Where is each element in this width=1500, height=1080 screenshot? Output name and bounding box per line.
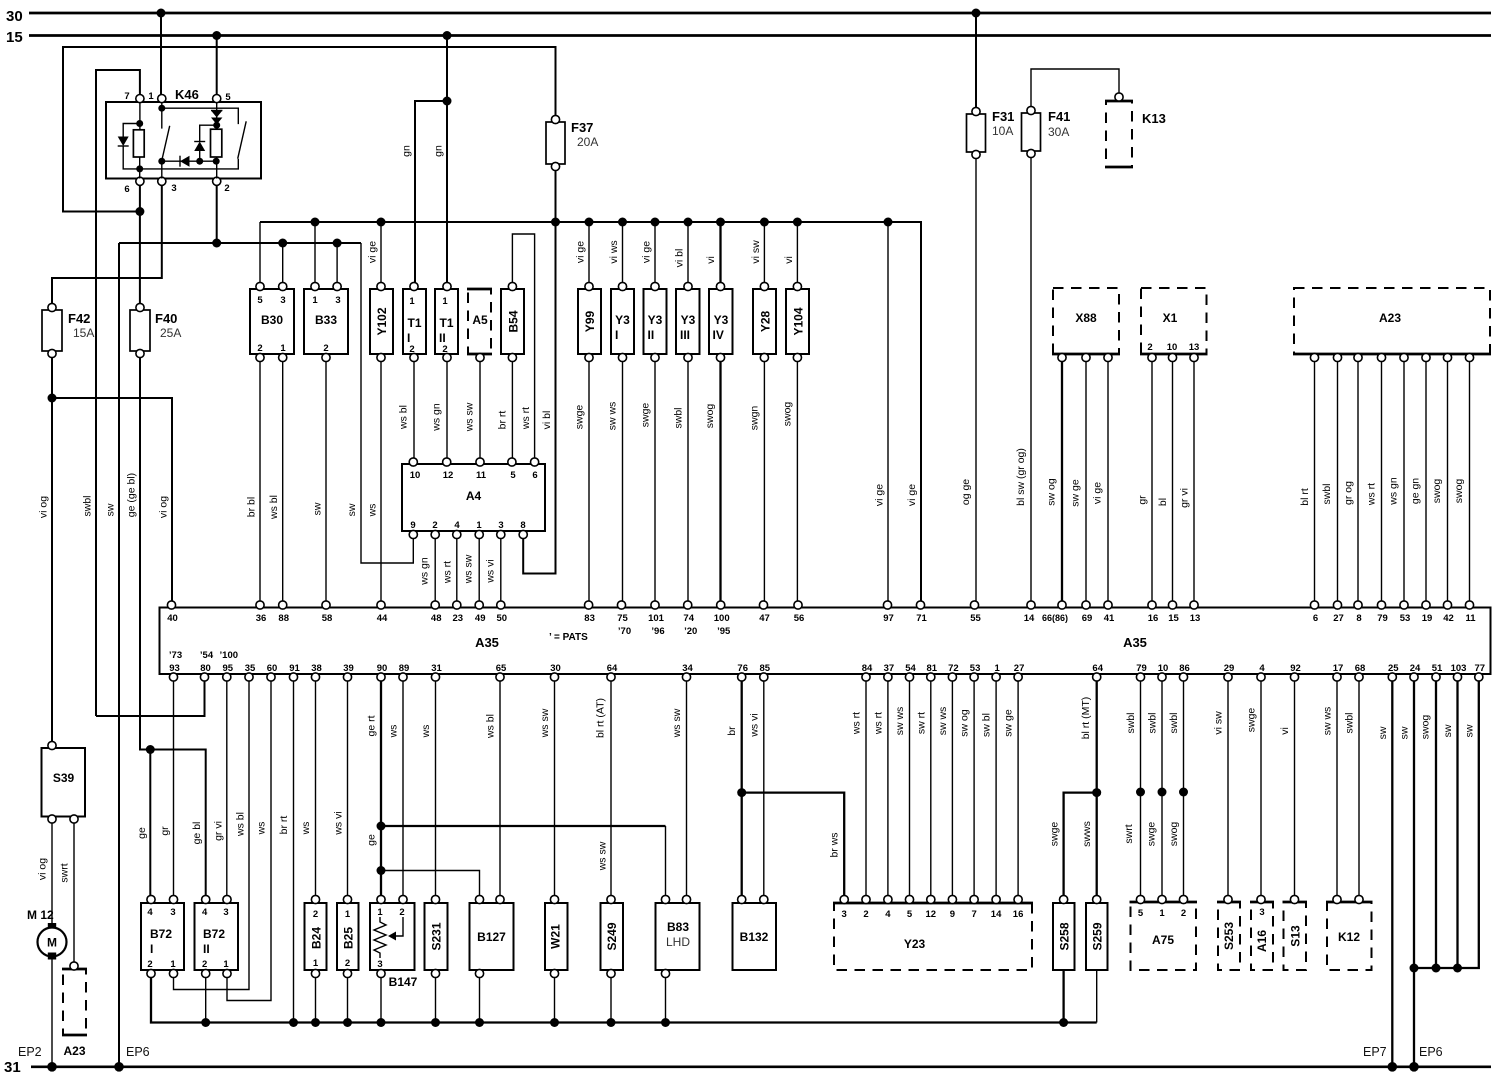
wire K46 pin7 to node (swbl riser top) <box>96 70 140 716</box>
svg-text:58: 58 <box>322 613 333 624</box>
svg-text:B30: B30 <box>261 313 283 327</box>
svg-text:B25: B25 <box>342 927 356 949</box>
svg-text:91: 91 <box>289 663 300 674</box>
svg-text:36: 36 <box>256 613 267 624</box>
svg-text:S231: S231 <box>430 922 444 950</box>
svg-text:3: 3 <box>377 959 382 970</box>
svg-text:swge: swge <box>640 403 652 428</box>
svg-text:83: 83 <box>584 613 595 624</box>
svg-text:br: br <box>726 726 738 736</box>
svg-text:6: 6 <box>1313 613 1318 624</box>
svg-text:ws sw: ws sw <box>463 554 475 584</box>
svg-text:15A: 15A <box>73 326 94 340</box>
K46 contact 1 (pin1 to pin3) <box>158 102 169 179</box>
svg-text:T1: T1 <box>407 316 421 330</box>
svg-text:35: 35 <box>245 663 256 674</box>
svg-text:5: 5 <box>1138 908 1144 919</box>
K46 coil1 suppression diode D1 <box>118 124 140 169</box>
K46 coil 2 with suppressor <box>211 102 223 179</box>
svg-text:swog: swog <box>1431 479 1443 504</box>
svg-text:vi: vi <box>705 256 717 264</box>
svg-text:103: 103 <box>1451 663 1467 674</box>
svg-text:25A: 25A <box>160 326 181 340</box>
svg-text:30: 30 <box>6 8 23 25</box>
svg-text:44: 44 <box>377 613 388 624</box>
svg-text:9: 9 <box>410 520 415 531</box>
svg-text:gr vi: gr vi <box>1179 488 1191 508</box>
svg-text:6: 6 <box>532 470 537 481</box>
sensor B33 <box>304 282 348 361</box>
svg-text:vi og: vi og <box>37 858 49 880</box>
svg-text:5: 5 <box>225 92 231 103</box>
svg-text:’54: ’54 <box>200 650 214 661</box>
module A23 (top right) <box>1293 288 1491 362</box>
svg-text:Y3: Y3 <box>714 313 729 327</box>
svg-text:K12: K12 <box>1338 930 1360 944</box>
valve block Y23 <box>833 895 1033 970</box>
svg-text:17: 17 <box>1333 663 1344 674</box>
wire A35 pin92 to S13 (vi) <box>1279 681 1295 898</box>
svg-text:84: 84 <box>862 663 873 674</box>
svg-text:EP6: EP6 <box>1419 1045 1443 1059</box>
wire net222 to A35 pin97 (vi ge) <box>874 222 889 603</box>
wire A35 pin103 to EP6 merge (sw) <box>1442 681 1458 968</box>
svg-text:85: 85 <box>760 663 771 674</box>
wire A35 pin27 to Y23 pin16 (sw ge) <box>1003 681 1019 898</box>
wire A35 pin34 to B83 right pin (ws sw) <box>671 681 687 898</box>
wire A35 pin89 to B147 pin2 (ws) <box>388 681 404 898</box>
valve Y102 <box>370 282 393 361</box>
svg-text:47: 47 <box>759 613 770 624</box>
K46 contact 2 blade <box>140 121 247 169</box>
svg-text:14: 14 <box>1024 613 1035 624</box>
svg-text:ws rt: ws rt <box>520 407 532 430</box>
module A5 <box>467 289 492 362</box>
fuse F40 25A <box>130 303 181 357</box>
svg-text:S13: S13 <box>1289 925 1303 947</box>
svg-text:bl: bl <box>1157 498 1169 506</box>
wire A23 to A35 pin42 (swog) <box>1431 362 1448 604</box>
svg-text:Y99: Y99 <box>583 311 597 333</box>
K46 diode D3 (vertical up) <box>194 125 217 161</box>
svg-text:30A: 30A <box>1048 125 1069 139</box>
svg-text:sw: sw <box>1442 724 1454 737</box>
svg-text:1: 1 <box>148 91 154 102</box>
svg-text:Y23: Y23 <box>904 937 926 951</box>
bus 15 <box>6 29 1491 46</box>
ECU A35 <box>160 608 1491 675</box>
svg-text:37: 37 <box>884 663 895 674</box>
wire A35 pin64 to S259 (bl rt (MT) / swws) <box>1080 681 1101 898</box>
svg-text:swge: swge <box>1049 822 1061 847</box>
svg-text:A23: A23 <box>63 1044 85 1058</box>
svg-text:br rt: br rt <box>278 816 290 835</box>
svg-text:bl rt: bl rt <box>1299 488 1311 506</box>
connector X1 <box>1140 288 1208 362</box>
fuse F41 30A <box>1022 106 1071 157</box>
svg-text:11: 11 <box>476 470 487 481</box>
wire A35 pin77 to EP6 merge (sw) <box>1414 681 1479 973</box>
svg-text:27: 27 <box>1014 663 1025 674</box>
svg-text:3: 3 <box>1259 907 1264 918</box>
svg-text:2: 2 <box>399 907 404 918</box>
injector Y3 I <box>611 282 634 361</box>
svg-text:54: 54 <box>905 663 916 674</box>
fuse F42 15A <box>42 303 94 357</box>
svg-text:sw bl: sw bl <box>981 713 993 737</box>
wire B30 pin1 to A35 pin88 (ws bl) <box>268 362 283 604</box>
svg-text:1: 1 <box>409 296 415 307</box>
wire A23 to A35 pin19 (ge gn) <box>1410 362 1427 604</box>
svg-text:ge (ge bl): ge (ge bl) <box>126 473 138 517</box>
svg-text:’20: ’20 <box>684 626 697 637</box>
wire X1 pin13 to A35 pin13 (gr vi) <box>1179 362 1195 604</box>
wire A5 to A4 pin11 (ws sw) <box>464 362 481 461</box>
wire net222 to Y28 (vi sw) <box>750 222 765 284</box>
knock sensor B83 <box>656 895 700 977</box>
svg-text:bl sw (gr og): bl sw (gr og) <box>1015 448 1027 506</box>
wire A35 pin37 to Y23 pin4 (ws rt) <box>872 681 888 898</box>
svg-text:13: 13 <box>1189 342 1200 353</box>
svg-text:ws gn: ws gn <box>419 557 431 586</box>
svg-text:F41: F41 <box>1048 109 1070 124</box>
valve Y28 <box>753 282 776 361</box>
svg-text:79: 79 <box>1136 663 1147 674</box>
svg-text:25: 25 <box>1388 663 1399 674</box>
svg-text:10A: 10A <box>992 124 1013 138</box>
wire net243 to B33 pin3 <box>336 243 338 284</box>
wire A35 pin91 to sensor ground bus (br rt) <box>278 681 294 1023</box>
svg-text:31: 31 <box>431 663 442 674</box>
wire swbl riser (K46 pin7 to A35 pin80) <box>82 495 205 716</box>
wire Y28 to A35 pin47 (swgn) <box>749 362 765 604</box>
svg-text:’ = PATS: ’ = PATS <box>549 632 588 643</box>
wire net222 to Y3 I (vi ws) <box>608 222 623 284</box>
injector Y3 IV <box>709 282 733 361</box>
svg-text:swbl: swbl <box>1125 712 1137 733</box>
svg-text:swog: swog <box>1453 479 1465 504</box>
wire A4 pin1 to A35 pin49 (ws sw) <box>463 539 480 604</box>
wire net222 to Y102 (vi ge) <box>367 222 382 284</box>
svg-text:A75: A75 <box>1152 933 1174 947</box>
svg-text:1: 1 <box>476 520 482 531</box>
wire A35 pin85 to B132 right pin (ws vi) <box>748 681 764 898</box>
svg-text:12: 12 <box>443 470 454 481</box>
svg-text:ws: ws <box>388 725 400 739</box>
wire X88 pin to A35 pin69 (sw ge) <box>1070 362 1087 604</box>
svg-text:vi sw: vi sw <box>1213 711 1225 735</box>
svg-text:br ws: br ws <box>829 832 841 857</box>
svg-text:swrt: swrt <box>59 863 71 882</box>
svg-text:90: 90 <box>377 663 388 674</box>
svg-text:2: 2 <box>345 958 350 969</box>
svg-text:2: 2 <box>432 520 437 531</box>
wire S39 to M12 (vi og) <box>37 823 53 924</box>
K46 diode D2 (horizontal) <box>162 156 220 167</box>
module A23 (bottom left) <box>62 962 87 1058</box>
svg-text:swbl: swbl <box>1344 712 1356 733</box>
svg-text:swbl: swbl <box>82 495 94 516</box>
connector X88 <box>1052 288 1120 362</box>
wire A35 pin29 to S253 (vi sw) <box>1213 681 1229 898</box>
svg-text:X88: X88 <box>1075 311 1097 325</box>
wire A35 pin4 to A16 pin3 (swge) <box>1246 681 1262 898</box>
svg-text:S253: S253 <box>1222 922 1236 950</box>
wire B30 pin2 to A35 pin36 (br bl) <box>246 362 261 604</box>
svg-text:F31: F31 <box>992 109 1014 124</box>
svg-text:71: 71 <box>916 613 927 624</box>
svg-text:sw: sw <box>1377 726 1389 739</box>
wire A35 pin86 to A75 pin2 (swbl / swog) <box>1168 681 1188 898</box>
wire A35 pin81 to Y23 pin12 (sw rt) <box>915 681 931 898</box>
svg-text:A23: A23 <box>1379 311 1401 325</box>
svg-text:20A: 20A <box>577 135 598 149</box>
svg-text:39: 39 <box>343 663 354 674</box>
svg-text:64: 64 <box>1092 663 1103 674</box>
wire Y3 III to A35 pin74 (swbl) <box>673 362 689 604</box>
sensor ground bus (to A35 pin91) <box>151 970 1097 1027</box>
svg-text:T1: T1 <box>439 316 453 330</box>
wire F42 to S39 (vi og) <box>38 358 57 746</box>
svg-text:53: 53 <box>970 663 981 674</box>
svg-text:sw ws: sw ws <box>1322 707 1334 736</box>
wire A35 pin53 to Y23 pin7 (sw og) <box>959 681 975 898</box>
wire branch pin64 to S258 (swge) <box>1049 793 1097 898</box>
wire A35 pin79 to A75 pin5 (swbl / swrt) <box>1123 681 1145 898</box>
svg-text:II: II <box>203 942 210 956</box>
svg-text:sw: sw <box>346 503 358 516</box>
sensor B24 <box>305 895 327 977</box>
svg-text:’95: ’95 <box>717 626 731 637</box>
svg-text:2: 2 <box>147 959 152 970</box>
wire A35 pin38 to B24 (ws) <box>300 681 316 898</box>
svg-text:ws: ws <box>300 822 312 836</box>
svg-text:swbl: swbl <box>1321 483 1333 504</box>
sensor B30 <box>250 282 294 361</box>
svg-text:vi: vi <box>783 256 795 264</box>
wire A35 pin95 to B72 II pin3 (gr vi) <box>212 681 227 898</box>
svg-text:ws sw: ws sw <box>671 708 683 738</box>
svg-text:’70: ’70 <box>618 626 631 637</box>
svg-text:swog: swog <box>1168 822 1180 847</box>
svg-text:74: 74 <box>683 613 694 624</box>
wire K46 pin3 to fuse F42 <box>52 186 162 306</box>
svg-text:ws rt: ws rt <box>851 712 863 735</box>
svg-text:vi ws: vi ws <box>608 240 620 263</box>
svg-text:2: 2 <box>202 959 207 970</box>
wire A35 pin65 to B127 right pin (ws bl) <box>485 681 501 898</box>
wire A4 pin4 to A35 pin23 (ws rt) <box>441 539 457 604</box>
wire net243 to B30 pin3 <box>282 243 284 284</box>
wire A35 pin76 to B132 left pin (br) <box>726 681 746 898</box>
svg-text:I: I <box>407 331 410 345</box>
svg-text:15: 15 <box>6 29 23 46</box>
fuel pump motor M12 <box>27 908 67 1067</box>
wire X88 pin to A35 pin66(86) (sw og) <box>1046 362 1063 604</box>
svg-text:vi: vi <box>1279 727 1291 735</box>
wire branch pin76 to Y23 pin3 (br ws) <box>742 793 845 898</box>
svg-text:vi bl: vi bl <box>541 411 553 430</box>
svg-text:75: 75 <box>617 613 628 624</box>
svg-text:B54: B54 <box>507 310 521 332</box>
wire A23 to A35 pin79 (ws rt) <box>1366 362 1382 604</box>
svg-text:12: 12 <box>926 909 937 920</box>
wire net222 to Y104 (vi) <box>783 222 798 284</box>
svg-text:60: 60 <box>267 663 278 674</box>
wire A23 to A35 pin27 (swbl) <box>1321 362 1338 604</box>
svg-text:ge gn: ge gn <box>1410 478 1422 504</box>
A35 bottom pin row <box>169 650 1485 681</box>
svg-text:2: 2 <box>313 909 318 920</box>
sensor B54 <box>501 282 524 361</box>
svg-text:92: 92 <box>1290 663 1301 674</box>
switch S231 <box>425 895 448 977</box>
svg-text:’96: ’96 <box>651 626 664 637</box>
svg-text:3: 3 <box>171 183 176 194</box>
svg-text:sw rt: sw rt <box>915 712 927 734</box>
wire A35 pin17 to K12 (sw ws) <box>1322 681 1338 898</box>
wire T1 I pin2 to A4 pin10 (ws bl) <box>398 362 415 461</box>
svg-text:gr: gr <box>159 826 171 836</box>
svg-text:2: 2 <box>323 343 328 354</box>
svg-text:A4: A4 <box>466 489 482 503</box>
svg-text:13: 13 <box>1190 613 1201 624</box>
fuse F31 10A <box>967 13 1015 159</box>
svg-text:49: 49 <box>475 613 486 624</box>
svg-text:55: 55 <box>970 613 981 624</box>
sensor B127 <box>470 895 514 977</box>
svg-text:swgn: swgn <box>749 406 761 431</box>
wire K46 pin6 branch to F37 <box>63 47 556 212</box>
svg-text:1: 1 <box>280 343 286 354</box>
svg-text:sw ge: sw ge <box>1003 709 1015 737</box>
wire branch pin90 to B83 left pin (ws sw) <box>381 826 666 898</box>
svg-text:Y3: Y3 <box>648 313 663 327</box>
svg-text:vi ge: vi ge <box>906 484 918 506</box>
valve Y99 <box>578 282 601 361</box>
svg-text:bl rt (AT): bl rt (AT) <box>595 698 607 738</box>
svg-text:1: 1 <box>345 909 351 920</box>
svg-text:100: 100 <box>714 613 730 624</box>
K46 coil 1 <box>133 102 144 179</box>
fuel pump relay output S39 <box>42 741 86 823</box>
module A16 <box>1250 895 1274 970</box>
wire net222 to B33 pin1 <box>314 222 316 284</box>
svg-text:vi ge: vi ge <box>1092 482 1104 504</box>
svg-text:Y104: Y104 <box>791 307 805 335</box>
svg-text:3: 3 <box>335 295 340 306</box>
svg-text:swws: swws <box>1081 821 1093 847</box>
svg-text:16: 16 <box>1148 613 1159 624</box>
svg-text:1: 1 <box>313 958 319 969</box>
svg-text:II: II <box>439 331 446 345</box>
svg-text:vi sw: vi sw <box>750 240 762 264</box>
svg-text:ws gn: ws gn <box>431 403 443 432</box>
switch S258 <box>1053 895 1075 970</box>
bus 30 <box>6 8 1491 25</box>
wire B54 to A4 pin5 (br rt) <box>497 362 513 461</box>
wire A35 pin31 to S231 (ws) <box>420 681 436 898</box>
svg-text:B83: B83 <box>667 920 689 934</box>
svg-text:swog: swog <box>1420 715 1432 740</box>
svg-text:X1: X1 <box>1163 311 1178 325</box>
svg-text:ws rt: ws rt <box>441 561 453 584</box>
svg-text:7: 7 <box>124 91 129 102</box>
svg-text:5: 5 <box>257 295 263 306</box>
wire A35 pin30 to W21 (ws sw) <box>539 681 555 898</box>
svg-text:3: 3 <box>223 907 228 918</box>
svg-text:F42: F42 <box>68 311 90 326</box>
svg-text:42: 42 <box>1443 613 1454 624</box>
svg-text:gr og: gr og <box>1343 481 1355 505</box>
svg-text:og ge: og ge <box>960 479 972 505</box>
svg-text:ws bl: ws bl <box>398 405 410 430</box>
svg-text:II: II <box>648 328 655 342</box>
sensor B25 <box>337 895 359 977</box>
wire F41 top to K13 <box>1031 69 1119 107</box>
switch S249 <box>601 895 624 977</box>
module A4 <box>402 458 545 539</box>
svg-text:29: 29 <box>1224 663 1235 674</box>
injector Y3 II <box>644 282 667 361</box>
wire X1 pin10 to A35 pin15 (bl) <box>1157 362 1173 604</box>
svg-text:IV: IV <box>713 328 724 342</box>
svg-text:K46: K46 <box>175 87 199 102</box>
throttle potentiometer B147 <box>370 895 418 989</box>
svg-text:swge: swge <box>574 405 586 430</box>
svg-text:ws bl: ws bl <box>268 495 280 520</box>
svg-text:1: 1 <box>312 295 318 306</box>
svg-text:2: 2 <box>257 343 262 354</box>
svg-text:sw og: sw og <box>959 709 971 737</box>
wire Y104 to A35 pin56 (swog) <box>782 362 798 604</box>
injector Y3 III <box>676 282 700 361</box>
svg-text:2: 2 <box>442 344 447 355</box>
sensor B132 <box>733 895 777 970</box>
svg-text:1: 1 <box>377 907 383 918</box>
svg-text:6: 6 <box>124 184 129 195</box>
wire Y3 II to A35 pin101 (swge) <box>640 362 656 604</box>
svg-text:sw ws: sw ws <box>607 402 619 431</box>
svg-text:ws vi: ws vi <box>748 713 760 737</box>
svg-text:br bl: br bl <box>246 497 258 517</box>
svg-text:ge bl: ge bl <box>191 822 203 845</box>
wire B54 top loop to A4 pin6 (ws rt) <box>512 234 534 460</box>
net 243 distribution line <box>119 239 413 564</box>
svg-text:A35: A35 <box>1123 635 1147 650</box>
svg-text:M: M <box>47 936 57 950</box>
svg-text:swrt: swrt <box>1123 824 1135 843</box>
svg-text:gr vi: gr vi <box>212 821 224 841</box>
svg-text:56: 56 <box>794 613 805 624</box>
svg-text:1: 1 <box>170 959 176 970</box>
svg-text:1: 1 <box>223 959 229 970</box>
svg-text:M 12: M 12 <box>27 908 54 922</box>
svg-text:swog: swog <box>782 402 794 427</box>
wire T1 II pin2 to A4 pin12 (ws gn) <box>431 362 448 461</box>
wire A35 pin60 to B72 II pin1 (ws) <box>227 681 271 1001</box>
svg-text:vi og: vi og <box>158 496 170 518</box>
wire B33 pin2 to A35 pin58 (sw) <box>312 362 327 604</box>
svg-text:ws: ws <box>367 504 379 518</box>
svg-text:B24: B24 <box>310 927 324 949</box>
lambda probe B72 II <box>195 895 239 977</box>
svg-text:LHD: LHD <box>666 935 690 949</box>
switch S253 <box>1217 895 1241 970</box>
svg-text:swbl: swbl <box>1147 712 1159 733</box>
svg-text:76: 76 <box>737 663 748 674</box>
svg-text:vi ge: vi ge <box>575 241 587 263</box>
